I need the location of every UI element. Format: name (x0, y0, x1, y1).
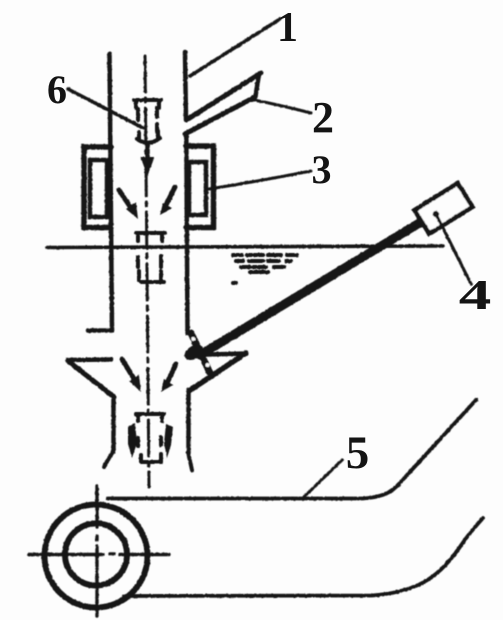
svg-text:4: 4 (459, 271, 492, 318)
svg-text:1: 1 (277, 5, 298, 51)
svg-text:6: 6 (47, 67, 67, 112)
svg-text:3: 3 (312, 147, 332, 192)
svg-text:5: 5 (346, 427, 370, 479)
svg-text:2: 2 (312, 93, 334, 142)
